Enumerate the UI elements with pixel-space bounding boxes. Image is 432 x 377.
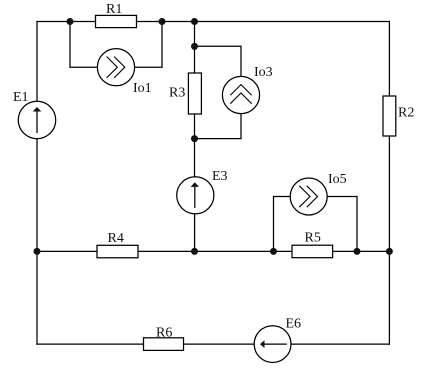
wire Io5 left branch <box>274 197 291 252</box>
resistor R5 <box>292 245 333 258</box>
wire E3 bottom lead <box>194 214 196 252</box>
svg-text:R2: R2 <box>398 106 414 121</box>
wire left upper (E1 top lead) <box>36 22 38 102</box>
wire top-right segment <box>137 21 390 23</box>
svg-text:Io5: Io5 <box>328 172 347 187</box>
junction node (left wire / middle bus) <box>34 248 41 255</box>
junction node (center vertical / top wire) <box>191 18 198 25</box>
junction node (E3 / middle bus) <box>191 248 198 255</box>
wire Io1 right branch <box>135 22 162 68</box>
wire middle bus right <box>333 250 389 252</box>
current source Io3 <box>222 76 259 113</box>
resistor R1 <box>96 15 137 27</box>
svg-text:Io3: Io3 <box>254 65 273 80</box>
svg-text:R6: R6 <box>156 326 172 341</box>
wire right lower (R2 bottom lead) <box>388 137 390 345</box>
svg-text:R3: R3 <box>169 86 185 101</box>
wire left lower (E1 bottom lead) <box>36 139 38 344</box>
wire bottom-middle segment <box>184 343 254 345</box>
junction node (Io1 right / top wire) <box>159 18 166 25</box>
wire middle bus center <box>139 250 292 252</box>
resistor R4 <box>97 245 138 257</box>
junction node (Io1 left / top wire) <box>67 18 74 25</box>
voltage source E3 <box>177 177 214 214</box>
svg-text:E1: E1 <box>13 90 29 105</box>
svg-text:E3: E3 <box>212 169 228 184</box>
svg-text:R5: R5 <box>305 231 321 246</box>
voltage source E1 <box>18 101 55 138</box>
junction node (R3 bottom / Io3 branch) <box>191 135 198 142</box>
svg-text:R4: R4 <box>108 231 124 246</box>
wire bottom-left segment <box>37 343 143 345</box>
junction node (R3 top / Io3 branch) <box>191 43 198 50</box>
wire Io5 right branch <box>327 197 357 252</box>
wire Io3 top branch <box>195 46 242 76</box>
junction node (Io5 left / middle bus) <box>270 248 277 255</box>
svg-text:R1: R1 <box>106 2 122 17</box>
current source Io5 <box>290 178 327 215</box>
svg-text:E6: E6 <box>286 317 302 332</box>
svg-text:Io1: Io1 <box>133 81 152 96</box>
wire Io1 left branch <box>70 22 97 68</box>
wire center vertical top (node to R3) <box>194 22 196 74</box>
junction node (right wire / middle bus) <box>386 248 393 255</box>
resistor R6 <box>144 338 184 351</box>
wire R3 bottom lead <box>194 114 196 177</box>
wire right upper (R2 top lead) <box>388 22 390 97</box>
wire Io3 bottom branch <box>195 114 242 139</box>
junction node (Io5 right / middle bus) <box>354 248 361 255</box>
resistor R2 <box>383 96 396 136</box>
wire bottom-right segment <box>291 343 389 345</box>
wire middle bus left <box>37 250 96 252</box>
voltage source E6 <box>254 326 291 363</box>
resistor R3 <box>188 73 201 114</box>
wire top-left segment <box>37 21 96 23</box>
current source Io1 <box>97 49 134 86</box>
